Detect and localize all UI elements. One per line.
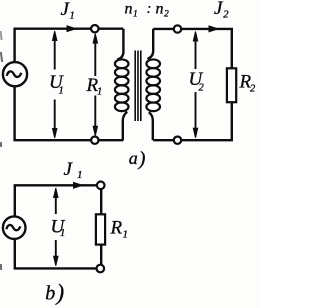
svg-text:1: 1 xyxy=(123,229,129,241)
svg-text:1: 1 xyxy=(77,169,83,181)
svg-text:2: 2 xyxy=(199,83,205,94)
svg-text:b: b xyxy=(45,283,55,305)
svg-text:R: R xyxy=(110,218,123,239)
svg-text:): ) xyxy=(55,280,65,305)
svg-text:1: 1 xyxy=(59,86,64,97)
svg-text:1: 1 xyxy=(97,87,102,98)
svg-text:a: a xyxy=(129,148,138,168)
svg-text:2: 2 xyxy=(223,9,229,20)
svg-text:n: n xyxy=(125,1,133,18)
svg-text:n: n xyxy=(156,1,164,18)
svg-text:1: 1 xyxy=(60,228,65,239)
svg-text:): ) xyxy=(138,148,146,170)
svg-text:2: 2 xyxy=(164,10,169,20)
svg-text:1: 1 xyxy=(133,10,138,20)
svg-text:1: 1 xyxy=(70,10,75,21)
svg-text::: : xyxy=(147,1,152,17)
svg-text:2: 2 xyxy=(250,84,256,95)
